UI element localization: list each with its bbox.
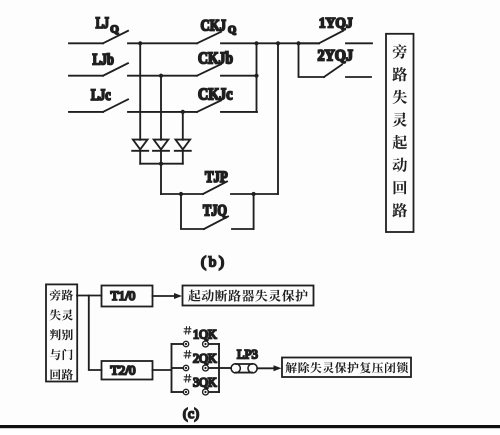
box T1/0 timer	[102, 286, 153, 307]
relay contact 2YQJ	[324, 65, 371, 78]
svg-text:CKJc: CKJc	[198, 85, 233, 104]
junction row1/rail	[254, 41, 258, 45]
svg-text:LP3: LP3	[237, 347, 258, 361]
wire QK right rail	[218, 344, 220, 392]
arrow LP3 to unlock box	[257, 365, 281, 371]
diode D2 (cathode down)	[153, 140, 169, 164]
junction row2/D2	[159, 74, 163, 78]
box: bypass failure AND-gate circuit	[46, 284, 77, 381]
wire T2/0 to QK group	[153, 369, 172, 371]
svg-text:CKJb: CKJb	[198, 49, 233, 68]
switch 1QK with terminal sockets	[172, 341, 220, 347]
box: start breaker failure protection	[183, 286, 314, 306]
relay contact CKJQ	[197, 32, 319, 44]
svg-text:LJc: LJc	[91, 87, 111, 104]
switch 2QK with terminal sockets	[172, 365, 220, 371]
svg-text:TJP: TJP	[205, 169, 228, 186]
svg-text:T1/0: T1/0	[111, 289, 136, 303]
relay contact LJc	[69, 99, 128, 112]
svg-text:TJQ: TJQ	[203, 203, 227, 220]
relay contact 1YQJ	[299, 31, 373, 44]
svg-text:1QK: 1QK	[193, 328, 217, 342]
text 旁路失灵起动回路 (vertical)	[392, 44, 407, 217]
text 旁路	[50, 289, 73, 300]
relay contact LJb	[69, 63, 128, 75]
text 起动断路器失灵保护	[188, 290, 308, 302]
diode D1 (cathode down)	[132, 140, 148, 164]
junction row1/2YQJ branch	[296, 41, 300, 45]
text 失灵	[50, 309, 73, 320]
relay contact CKJb	[197, 64, 257, 76]
wire row2 LJb to CKJb	[128, 75, 197, 77]
wire row2 down to diode D2	[160, 76, 162, 140]
svg-text:2YQJ: 2YQJ	[318, 48, 354, 65]
wire bus down to TJP row	[160, 164, 162, 194]
hash mark for 1QK	[184, 327, 191, 334]
junction TJP/TJQ right	[252, 192, 256, 196]
wire branch down to T2/0	[89, 296, 102, 371]
wire QK group to LP3	[219, 367, 231, 369]
wire row1 down to diode D1	[139, 43, 141, 140]
wire QK left rail	[171, 344, 173, 392]
svg-text:3QK: 3QK	[193, 376, 217, 390]
junction row3/D3	[181, 110, 185, 114]
svg-text:(c): (c)	[183, 406, 199, 421]
svg-text:1YQJ: 1YQJ	[319, 15, 353, 31]
wire rail row1 down to TJP row (x=278)	[277, 43, 279, 194]
junction row2/rail	[254, 74, 258, 78]
junction diode bus / TJP feed	[159, 162, 163, 166]
wire row3 LJc to CKJc	[128, 111, 197, 113]
box T2/0 timer	[102, 361, 153, 380]
junction row1/D1	[138, 41, 142, 45]
wire left box to T1/0	[77, 295, 102, 297]
arrow T1/0 to starting failure protection	[153, 293, 183, 299]
junction TJP/TJQ left	[179, 192, 183, 196]
relay contact TJP	[161, 182, 278, 195]
relay contact CKJc	[197, 100, 257, 112]
svg-text:T2/0: T2/0	[111, 363, 136, 377]
svg-text:(b): (b)	[201, 255, 224, 271]
svg-text:LJb: LJb	[93, 52, 115, 69]
svg-text:Q: Q	[228, 25, 236, 36]
diode D3 (cathode down)	[175, 140, 191, 164]
bottom rule	[0, 425, 500, 428]
wire row1 LJQ to CKJQ	[128, 42, 197, 44]
hash mark for 3QK	[184, 375, 191, 382]
relay contact LJQ (switch blade, row a)	[69, 31, 128, 44]
text 解除失灵保护复压闭锁	[286, 362, 408, 373]
hash mark for 2QK	[184, 351, 191, 358]
box: bypass failure starting circuit (vertical)	[386, 34, 414, 232]
svg-text:LJ: LJ	[96, 15, 109, 32]
junction row1/TJP rail	[276, 41, 280, 45]
wire rail joining rows a,b,c (x=256.5)	[256, 43, 258, 112]
text 判别	[50, 329, 73, 340]
link plate LP3	[231, 364, 257, 373]
svg-text:2QK: 2QK	[193, 352, 217, 366]
relay contact TJQ (parallel with TJP)	[181, 194, 254, 229]
switch 3QK with terminal sockets	[172, 389, 220, 395]
wire branch to 2YQJ	[299, 43, 325, 77]
box: release failure protection voltage-lock	[282, 358, 411, 378]
wire row3 down to diode D3	[182, 112, 184, 140]
svg-text:Q: Q	[110, 24, 119, 36]
wire diode bus	[140, 163, 183, 165]
text 与门	[50, 349, 73, 360]
text 回路	[51, 369, 74, 380]
svg-text:CKJ: CKJ	[201, 18, 227, 35]
